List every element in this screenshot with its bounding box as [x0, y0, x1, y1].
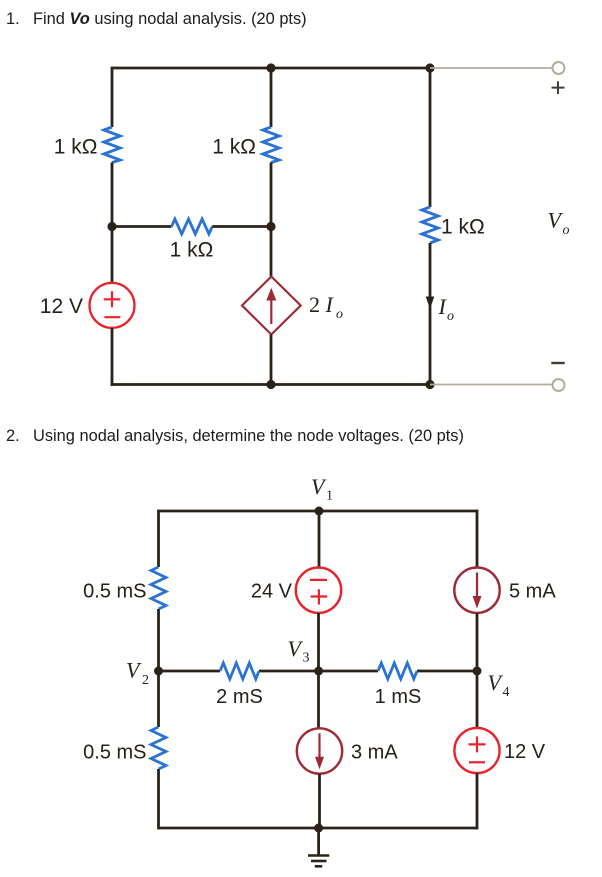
current source 3mA — [297, 728, 342, 773]
resistor R3 1kOhm horizontal — [172, 219, 213, 234]
svg-text:3: 3 — [303, 651, 310, 666]
terminal wire top — [430, 67, 553, 69]
wire: middle vertical upper segment — [270, 68, 273, 127]
wire: middle horizontal right part — [212, 225, 271, 228]
resistor R2 1kOhm middle — [263, 127, 279, 163]
svg-text:2.: 2. — [6, 427, 20, 445]
wire: middle horizontal left part — [112, 225, 172, 228]
wire: right vertical mid — [476, 613, 479, 728]
node V4 junction — [473, 667, 482, 676]
wire: middle horizontal left part — [159, 670, 221, 673]
svg-text:12 V: 12 V — [40, 295, 83, 318]
problem 1 title — [6, 10, 307, 28]
svg-text:0.5 mS: 0.5 mS — [83, 742, 146, 764]
svg-text:Find Vo using nodal analysis.: Find Vo using nodal analysis. (20 pts) — [33, 10, 307, 28]
resistor R4 1kOhm right — [422, 207, 438, 243]
resistor 2mS — [220, 663, 259, 679]
terminal top circle — [553, 62, 565, 74]
svg-text:V: V — [288, 636, 304, 661]
svg-text:24 V: 24 V — [251, 581, 293, 603]
wire: middle horizontal center part — [259, 670, 378, 673]
voltage source 12V circuit2 — [454, 728, 499, 773]
svg-text:V: V — [126, 658, 142, 683]
wire: bottom horizontal — [111, 383, 430, 386]
problem 2 title — [6, 427, 464, 445]
wire: middle vertical mid — [317, 613, 320, 728]
svg-text:1: 1 — [326, 489, 333, 504]
svg-text:o: o — [336, 307, 343, 322]
wire: left vertical upper segment — [111, 67, 114, 127]
wire: left vertical middle segment — [111, 163, 114, 284]
wire: right vertical upper — [476, 510, 479, 568]
node V2 junction — [154, 667, 163, 676]
resistor 1mS — [378, 663, 417, 679]
svg-text:1 mS: 1 mS — [375, 686, 422, 708]
svg-text:1 kΩ: 1 kΩ — [212, 136, 256, 159]
resistor R1 1kOhm left — [104, 127, 120, 163]
svg-text:1.: 1. — [6, 10, 20, 28]
voltage source 24V — [296, 568, 341, 613]
svg-text:4: 4 — [503, 685, 510, 700]
svg-text:0.5 mS: 0.5 mS — [83, 581, 146, 603]
terminal bottom circle — [553, 379, 565, 391]
wire: middle vertical lower segment — [270, 335, 273, 386]
svg-text:o: o — [563, 223, 570, 238]
minus sign terminal — [551, 362, 564, 364]
svg-text:Using nodal analysis, determin: Using nodal analysis, determine the node… — [33, 427, 464, 445]
wire: bottom horizontal — [159, 827, 478, 830]
resistor 0.5mS bottom — [151, 727, 166, 769]
svg-text:1 kΩ: 1 kΩ — [54, 136, 98, 159]
wire: right vertical lower segment — [429, 243, 432, 386]
wire: middle vertical upper — [318, 511, 321, 568]
ground — [308, 828, 329, 866]
svg-text:1 kΩ: 1 kΩ — [441, 216, 485, 239]
resistor 0.5mS top — [151, 567, 166, 609]
plus sign terminal — [552, 81, 565, 94]
node: bottom right junction — [425, 380, 434, 389]
node V1 junction — [315, 507, 324, 516]
svg-text:V: V — [311, 474, 327, 499]
voltage source V1 12V — [90, 283, 135, 328]
current arrow Io on right wire — [426, 297, 435, 310]
wire: middle vertical mid segment — [270, 163, 273, 277]
dependent source 2Io diamond — [242, 277, 301, 335]
wire: left vertical middle — [157, 609, 160, 727]
terminal wire bottom — [430, 384, 553, 386]
node V3 junction — [314, 667, 323, 676]
node A junction left-middle — [107, 222, 116, 231]
node: top right junction — [425, 63, 434, 72]
svg-text:2 mS: 2 mS — [216, 686, 263, 708]
current source 5mA — [454, 568, 499, 613]
wire: right vertical upper segment — [429, 68, 432, 207]
svg-text:2 I: 2 I — [309, 292, 335, 317]
svg-text:1 kΩ: 1 kΩ — [170, 239, 214, 262]
wire: middle horizontal right part — [417, 670, 477, 673]
svg-text:2: 2 — [142, 673, 149, 688]
node: top middle junction — [266, 63, 275, 72]
wire: top horizontal — [112, 67, 430, 70]
node: bottom middle junction — [266, 380, 275, 389]
wire: left vertical lower — [157, 769, 160, 829]
node ground junction — [314, 824, 323, 833]
wire: middle vertical lower — [318, 774, 321, 828]
node B junction middle — [266, 222, 275, 231]
svg-text:I: I — [438, 294, 448, 319]
svg-text:V: V — [548, 208, 564, 233]
wire: left vertical lower segment — [111, 328, 114, 386]
svg-text:12 V: 12 V — [504, 741, 546, 763]
wire: left vertical upper — [157, 510, 160, 567]
svg-text:V: V — [488, 670, 504, 695]
svg-text:3 mA: 3 mA — [351, 742, 398, 764]
svg-text:o: o — [447, 309, 454, 324]
svg-text:5 mA: 5 mA — [509, 581, 556, 603]
wire: top horizontal — [159, 510, 478, 513]
wire: right vertical lower — [476, 773, 479, 829]
